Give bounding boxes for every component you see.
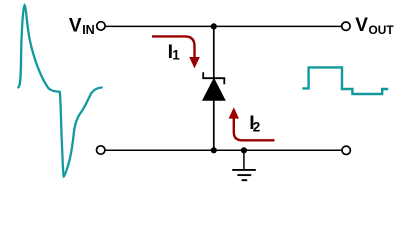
wire vertical: top node to diode cathode (213, 26, 215, 78)
junction dot bottom node (211, 147, 217, 153)
terminal VOUT (open circle) (342, 22, 350, 30)
diode D1 cathode bar with zener hooks (203, 72, 224, 84)
ground stub (243, 150, 245, 169)
terminal bottom-left (open circle) (97, 146, 105, 154)
wire vertical: diode anode to bottom rail (213, 100, 215, 151)
current arrow I2 (head, pointing up) (229, 107, 239, 118)
svg-text:2: 2 (253, 120, 261, 135)
svg-text:V: V (355, 15, 368, 36)
current arrow I1 (head, pointing down) (189, 57, 200, 68)
wire bottom rail (104, 149, 341, 151)
ground bar 1 (232, 169, 256, 171)
svg-text:1: 1 (172, 48, 180, 63)
svg-text:V: V (69, 15, 82, 36)
ground bar 3 (242, 179, 248, 181)
current arrow I2 (tail) (234, 118, 275, 140)
diode D1 anode triangle (203, 79, 225, 101)
svg-text:IN: IN (82, 23, 95, 37)
svg-text:OUT: OUT (369, 23, 395, 37)
input waveform (teal transient pulse) (18, 5, 102, 176)
terminal bottom-right (open circle) (342, 146, 350, 154)
output waveform (teal clipped square wave) (302, 67, 388, 94)
wire top: VIN to VOUT (106, 25, 341, 27)
terminal VIN (open circle) (97, 22, 105, 30)
junction dot top node (211, 23, 217, 29)
junction dot ground node (241, 147, 247, 153)
ground bar 2 (237, 174, 251, 176)
current arrow I1 (tail) (152, 36, 195, 57)
